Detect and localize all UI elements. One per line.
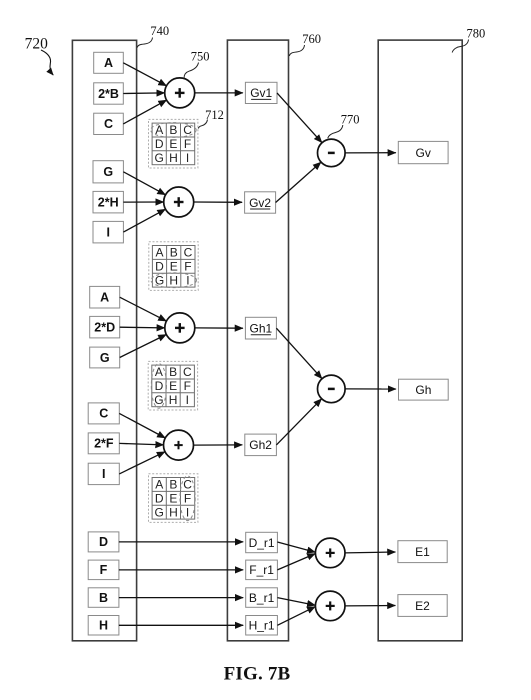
svg-text:770: 770 (341, 112, 360, 126)
wire B to B_r1 (119, 597, 243, 599)
wire F_r1 to summer S5 (277, 554, 315, 570)
svg-text:F: F (100, 563, 108, 577)
wire S2 to Gv2 (194, 201, 242, 203)
svg-text:A: A (155, 246, 163, 260)
wire 2*H to summer S2 (123, 201, 163, 203)
summer S1 (plus) (165, 78, 195, 108)
svg-text:F: F (184, 260, 191, 274)
input box C (row 1) (94, 113, 124, 134)
output column 780 (378, 40, 462, 641)
svg-text:2*F: 2*F (94, 437, 114, 451)
svg-text:D: D (155, 260, 164, 274)
svg-text:H_r1: H_r1 (249, 619, 275, 633)
wire G to summer S2 (123, 172, 165, 195)
wire Gh1 to difference D2 (276, 328, 322, 379)
svg-text:C: C (183, 478, 192, 492)
svg-text:I: I (102, 467, 105, 481)
svg-text:I: I (186, 273, 189, 287)
label 760 with leader (289, 32, 321, 56)
input box H (88, 616, 119, 636)
wire G to summer S3 (120, 335, 167, 358)
label 750 with leader (184, 50, 209, 79)
svg-text:G: G (155, 151, 164, 165)
wire H_r1 to summer S6 (277, 607, 315, 626)
wire D2 to Gh (345, 388, 396, 390)
svg-text:740: 740 (150, 24, 169, 38)
wire Gh2 to difference D2 (276, 399, 321, 445)
input box B (88, 588, 119, 608)
svg-text:C: C (183, 365, 192, 379)
register box D_r1 (246, 532, 278, 552)
label 720 with leader arrow (25, 35, 54, 75)
svg-text:C: C (99, 407, 108, 421)
svg-text:A: A (104, 56, 113, 70)
gradient box Gh2 (245, 434, 277, 456)
wire Gv2 to difference D1 (276, 162, 321, 202)
input box I (row 3) (93, 221, 123, 243)
svg-text:I: I (186, 505, 189, 519)
wire D to D_r1 (119, 541, 243, 543)
svg-text:D: D (155, 379, 164, 393)
output box E1 (398, 541, 447, 563)
svg-text:H: H (169, 393, 178, 407)
wire A to summer S1 (123, 63, 166, 86)
label 770 with leader (328, 112, 360, 138)
svg-text:A: A (155, 478, 163, 492)
svg-text:G: G (155, 505, 164, 519)
input column 740 (72, 40, 136, 641)
input box A (row 1) (94, 52, 124, 73)
register box H_r1 (246, 616, 278, 636)
svg-text:E2: E2 (415, 599, 430, 613)
figure caption FIG. 7B (224, 664, 291, 685)
input box F (88, 560, 119, 580)
svg-text:E1: E1 (415, 545, 430, 559)
register box B_r1 (246, 588, 278, 608)
difference node D2 (minus) (318, 375, 346, 403)
input box C (col 3) (88, 403, 119, 424)
kernel grid (col CFI circled) (149, 474, 198, 523)
svg-text:H: H (169, 151, 178, 165)
svg-text:F: F (184, 137, 191, 151)
svg-text:Gv2: Gv2 (249, 196, 271, 210)
summer S6 (plus) (315, 591, 345, 621)
label 780 with leader (452, 27, 485, 53)
wire S5 to E1 (345, 551, 395, 554)
svg-text:A: A (155, 365, 163, 379)
kernel grid (row GHI circled) (149, 242, 198, 291)
wire I to summer S2 (123, 209, 165, 232)
svg-text:B_r1: B_r1 (249, 591, 275, 605)
svg-text:D_r1: D_r1 (249, 536, 275, 550)
svg-text:E: E (169, 379, 177, 393)
output box Gv (398, 141, 448, 163)
wire F to F_r1 (119, 569, 243, 571)
svg-text:F_r1: F_r1 (249, 563, 274, 577)
input box G (row 3) (93, 161, 123, 183)
wire 2*D to summer S3 (120, 326, 165, 329)
gradient box Gv2 (245, 192, 276, 213)
wire B_r1 to summer S6 (277, 598, 315, 606)
input box 2*B (94, 83, 124, 104)
svg-text:D: D (155, 137, 164, 151)
svg-text:2*B: 2*B (98, 87, 119, 101)
svg-text:720: 720 (25, 35, 48, 52)
kernel grid (col ADG circled) (148, 361, 197, 410)
gradient box Gh1 (245, 317, 276, 339)
wire 2*F to summer S4 (119, 443, 163, 445)
svg-text:Gh1: Gh1 (250, 322, 273, 336)
output box Gh (399, 379, 449, 400)
wire H to H_r1 (119, 624, 243, 626)
gradient box Gv1 (245, 82, 277, 103)
wire I to summer S4 (119, 452, 165, 474)
wire Gv1 to difference D1 (277, 93, 322, 143)
input box 2*D (90, 316, 120, 338)
svg-text:I: I (106, 226, 109, 240)
svg-text:2*D: 2*D (94, 320, 115, 334)
svg-text:2*H: 2*H (98, 196, 119, 210)
summer S4 (plus) (164, 430, 194, 460)
svg-text:E: E (169, 137, 177, 151)
input box I (col 3) (88, 463, 119, 484)
summer S2 (plus) (164, 187, 194, 217)
svg-text:750: 750 (191, 50, 210, 64)
svg-text:Gh: Gh (415, 383, 431, 397)
svg-text:B: B (169, 365, 177, 379)
output box E2 (398, 595, 447, 617)
wire C to summer S1 (123, 100, 166, 124)
svg-text:B: B (169, 478, 177, 492)
wire S6 to E2 (345, 605, 395, 607)
label 712 with leader (198, 108, 224, 129)
label 740 with leader (137, 24, 169, 47)
input box 2*H (93, 191, 123, 213)
svg-text:F: F (184, 379, 191, 393)
input box D (88, 532, 119, 552)
wire C to summer S4 (119, 413, 165, 438)
svg-text:Gh2: Gh2 (249, 438, 272, 452)
register box F_r1 (246, 560, 278, 580)
input box G (col 1) (90, 347, 120, 368)
svg-text:F: F (184, 492, 191, 506)
svg-text:760: 760 (302, 32, 321, 46)
difference node D1 (minus, 770) (318, 139, 346, 167)
gradient column 760 (227, 40, 288, 641)
svg-text:Gv1: Gv1 (250, 86, 272, 100)
wire 2*B to summer S1 (123, 92, 164, 95)
svg-text:B: B (170, 246, 178, 260)
svg-text:E: E (170, 260, 178, 274)
wire D_r1 to summer S5 (277, 542, 315, 552)
svg-text:I: I (186, 151, 189, 165)
svg-text:C: C (184, 246, 193, 260)
kernel grid 712 (row ABC circled) (149, 119, 198, 168)
svg-text:E: E (169, 492, 177, 506)
svg-text:Gv: Gv (416, 146, 431, 160)
svg-text:I: I (186, 393, 189, 407)
wire A to summer S3 (120, 297, 167, 321)
svg-text:D: D (155, 492, 164, 506)
svg-text:B: B (169, 123, 177, 137)
svg-text:FIG. 7B: FIG. 7B (224, 664, 291, 685)
wire S3 to Gh1 (195, 327, 243, 329)
svg-text:780: 780 (467, 27, 486, 41)
wire S1 to Gv1 (195, 92, 243, 94)
svg-text:G: G (154, 393, 163, 407)
svg-text:B: B (99, 591, 108, 605)
svg-text:G: G (100, 351, 110, 365)
svg-text:H: H (169, 505, 178, 519)
wire D1 to Gv (345, 152, 396, 154)
summer S3 (plus) (165, 313, 195, 343)
svg-text:H: H (169, 273, 178, 287)
svg-text:G: G (103, 165, 113, 179)
summer S5 (plus) (315, 538, 345, 568)
svg-text:H: H (99, 619, 108, 633)
wire S4 to Gh2 (194, 444, 243, 446)
svg-text:A: A (100, 291, 109, 305)
svg-text:D: D (99, 535, 108, 549)
input box 2*F (88, 433, 119, 454)
svg-text:C: C (104, 117, 113, 131)
input box A (col 1) (90, 286, 120, 308)
